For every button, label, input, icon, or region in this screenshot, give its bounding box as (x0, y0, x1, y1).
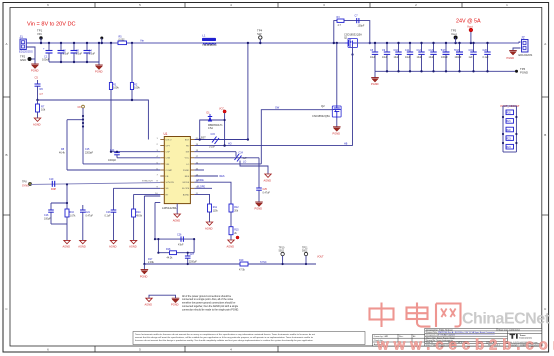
node: snubber rail junctions (333, 42, 335, 44)
svg-text:C8: C8 (78, 106, 82, 109)
capacitor C26 47pF (inline on top wire) (177, 234, 184, 247)
ground AGND (R16) (64, 240, 70, 243)
svg-text:VCC: VCC (219, 108, 224, 111)
svg-text:C7: C7 (355, 15, 359, 18)
wire: bus tie to rail (98, 43, 100, 62)
IC pin stubs right (190, 140, 194, 195)
capacitor C5 (35, 76, 44, 101)
ground PGND (C25) (255, 202, 263, 207)
resistor R3 snubber (inline) (337, 16, 345, 27)
svg-text:C15: C15 (211, 133, 216, 136)
svg-text:CSD18532Q5A: CSD18532Q5A (312, 114, 330, 118)
svg-text:C: C (5, 307, 8, 311)
svg-text:SYNC: SYNC (260, 261, 267, 264)
svg-text:BST: BST (201, 136, 206, 139)
wire: J1 pin2 to ground (26, 47, 35, 59)
node: R2 to wire (131, 99, 133, 101)
svg-text:5: 5 (139, 3, 141, 7)
svg-text:R20: R20 (507, 113, 512, 115)
zone tick marks left/right (3, 97, 549, 215)
svg-text:C18: C18 (455, 49, 460, 52)
svg-text:C12: C12 (417, 49, 422, 52)
svg-text:5002: 5002 (302, 250, 308, 253)
resistor R10 (inline sync) (49, 178, 56, 191)
svg-text:3.3uF: 3.3uF (76, 52, 83, 56)
svg-text:46.4k: 46.4k (59, 152, 66, 155)
wire: VCC row down to C25 (258, 158, 260, 188)
svg-text:Q2: Q2 (321, 104, 325, 108)
svg-text:COMP: COMP (166, 170, 173, 172)
svg-text:R3: R3 (337, 16, 341, 19)
svg-text:4: 4 (230, 3, 232, 7)
svg-text:SLOPE: SLOPE (197, 185, 205, 188)
svg-text:10uF: 10uF (394, 56, 400, 59)
svg-text:1: 1 (506, 3, 508, 7)
wire: SW node sense vertical (247, 43, 249, 140)
wire: box feed vertical (154, 203, 156, 240)
capacitor C3 3.3uF (71, 43, 83, 62)
svg-text:10uF: 10uF (382, 56, 388, 59)
wire: pin20 BST row (194, 139, 248, 141)
svg-text:AGND: AGND (227, 245, 235, 249)
svg-text:100k: 100k (113, 86, 119, 90)
svg-text:1uF: 1uF (469, 56, 474, 59)
wire: RT box top side (155, 238, 194, 240)
test point TP6 PGND (black, on bus) (512, 67, 528, 74)
capacitor C18 100uF (454, 43, 463, 71)
compensation network vertical C8 (78, 105, 94, 164)
svg-text:A: A (5, 42, 7, 46)
svg-text:ED120/2DS: ED120/2DS (19, 50, 33, 54)
svg-text:warrant that this design will: warrant that this design will meet the s… (135, 336, 314, 339)
svg-text:CSD18532Q5A: CSD18532Q5A (344, 33, 362, 37)
ground PGND input bus (95, 65, 103, 70)
capacitor C4 3.3uF (84, 43, 96, 62)
svg-text:Mod. Date: 10/31/2014: Mod. Date: 10/31/2014 (499, 328, 521, 331)
svg-text:ChinaECNet: ChinaECNet (462, 311, 551, 328)
node: rail to Q2 drain (336, 42, 338, 44)
ground AGND divider (34, 118, 40, 121)
svg-text:0.1uF: 0.1uF (483, 56, 490, 59)
svg-text:LO: LO (243, 161, 246, 164)
test point TP1 VIN (37, 29, 43, 44)
svg-text:CSN: CSN (166, 158, 171, 160)
wire: pin15 PGND stub (194, 169, 204, 171)
svg-text:10uF: 10uF (370, 56, 376, 59)
svg-text:C5: C5 (35, 76, 39, 80)
disclaimer box bottom center (133, 332, 365, 345)
svg-text:LM5122MH: LM5122MH (162, 206, 178, 210)
svg-text:VCC: VCC (185, 158, 190, 160)
resistor R16 1.07k (65, 202, 76, 224)
svg-text:100uF: 100uF (42, 58, 50, 62)
wire: Q2 source to ground (336, 118, 338, 127)
svg-text:PGND: PGND (183, 170, 190, 172)
wire: output ground bus (375, 70, 512, 72)
watermark char 网 (436, 304, 461, 328)
test point TP3 VOUT (red) (467, 25, 473, 44)
svg-text:44.2k: 44.2k (167, 256, 174, 259)
svg-text:1: 1 (157, 138, 159, 140)
svg-text:3.3uF: 3.3uF (89, 52, 96, 56)
resistor R15 (229, 227, 239, 240)
test point TP7 VCC (red) (219, 108, 226, 146)
wire: pin11 AGND row to R11 (194, 194, 209, 204)
svg-text:DNP: DNP (51, 188, 56, 191)
pin names (166, 139, 175, 196)
capacitor C1 100uF electrolytic (42, 43, 53, 62)
wire: RT box inner wire (158, 252, 194, 254)
ground PGND J2 (509, 51, 517, 56)
zone tick marks top (95, 3, 462, 8)
wire: pin17 VCC row (194, 157, 259, 159)
ground AGND IC pad (174, 214, 180, 217)
svg-text:100k: 100k (134, 86, 140, 90)
test point TP11 (302, 247, 308, 266)
svg-text:OPT: OPT (166, 146, 171, 148)
svg-text:R23: R23 (507, 138, 512, 140)
svg-text:VIN: VIN (166, 164, 170, 166)
svg-text:2200pF: 2200pF (85, 152, 94, 155)
svg-text:C27: C27 (190, 253, 195, 256)
svg-text:6: 6 (47, 3, 49, 7)
wire: pin19 HO row to Q1 gate (194, 145, 352, 147)
wire: left corner to ground (143, 264, 145, 270)
svg-text:C17: C17 (441, 49, 446, 52)
svg-text:C7: C7 (40, 92, 44, 96)
svg-text:PGND: PGND (520, 70, 528, 74)
capacitor C16 100pF (44, 203, 54, 224)
wire: Q1 gate drive vertical (HO) (352, 46, 354, 146)
wire: UVLO node to IC pin1 (38, 100, 149, 140)
resistor R12 (slope) (222, 182, 239, 227)
svg-text:3.3uF: 3.3uF (63, 52, 70, 56)
svg-text:SYNCIN: SYNCIN (166, 182, 175, 184)
svg-text:R22: R22 (507, 130, 512, 132)
wire: J2 pin2 to ground (513, 48, 521, 51)
svg-text:1000pF: 1000pF (108, 159, 117, 162)
svg-text:AGND: AGND (63, 245, 71, 249)
capacitor C22 0.1uF (SS) (105, 188, 117, 240)
capacitor C8 10uF (370, 43, 378, 71)
svg-text:0.002: 0.002 (119, 38, 126, 41)
svg-text:Project Title: PMP8740 Rev A -: Project Title: PMP8740 Rev A - 8V-20Vin,… (426, 331, 495, 334)
svg-text:AGND: AGND (129, 245, 137, 249)
svg-text:SLOPE: SLOPE (182, 188, 190, 190)
ground AGND (C24) (265, 174, 271, 177)
svg-text:C26: C26 (177, 234, 182, 237)
ground AGND (C23) (110, 240, 116, 243)
svg-text:B: B (544, 133, 546, 137)
svg-text:connection should be made to t: connection should be made to the single … (182, 308, 239, 311)
test point TP3 (input) (100, 37, 103, 40)
svg-text:Vin = 8V to 20V DC: Vin = 8V to 20V DC (27, 22, 76, 28)
wire: bottom sync rail (144, 263, 316, 265)
op-amp U1 LM5122 controller body (162, 132, 190, 210)
svg-text:Designed for: Public Release: Designed for: Public Release (426, 328, 454, 331)
svg-text:CSP: CSP (166, 152, 171, 154)
svg-text:HO: HO (186, 146, 190, 148)
svg-text:AGND: AGND (78, 245, 86, 249)
svg-text:2k: 2k (234, 232, 237, 235)
IC bottom pad stub (176, 204, 178, 214)
svg-text:1uF: 1uF (243, 157, 248, 160)
svg-text:10k: 10k (41, 108, 46, 112)
ground PGND (single point tie) (172, 298, 180, 303)
resistor R5 current sense shunt (inline on rail) (118, 36, 127, 45)
wire: pin13 MODE row (194, 181, 222, 183)
svg-text:GND: GND (20, 58, 26, 62)
svg-text:AGND: AGND (205, 227, 213, 231)
svg-text:C13: C13 (429, 49, 434, 52)
svg-text:0.1uF: 0.1uF (105, 215, 112, 218)
pin numbers (155, 138, 199, 195)
svg-text:7: 7 (157, 174, 159, 176)
svg-text:10uF: 10uF (429, 56, 435, 59)
svg-text:BST: BST (185, 139, 190, 141)
capacitor C14 1000pF (between CSP/CSN) (108, 149, 120, 162)
wire: pin3 CSP to input divider (111, 151, 160, 153)
svg-text:PGND: PGND (507, 56, 515, 60)
svg-text:100uF: 100uF (441, 56, 448, 59)
svg-text:10uF: 10uF (405, 56, 411, 59)
svg-text:115k: 115k (213, 210, 219, 213)
svg-text:C19: C19 (469, 49, 474, 52)
svg-text:www.cecb2b.com: www.cecb2b.com (376, 337, 554, 354)
capacitor C17 100uF (441, 43, 450, 71)
svg-text:LO: LO (186, 164, 189, 166)
capacitor C7 snubber (inline) (355, 15, 365, 28)
svg-text:0.5A: 0.5A (208, 127, 213, 130)
resistor R7 (36, 100, 46, 118)
test point TP10 (279, 247, 285, 266)
svg-text:J2: J2 (521, 36, 525, 40)
capacitor C9 10uF (382, 43, 390, 71)
svg-text:SYNC: SYNC (22, 185, 29, 188)
TI logo (509, 334, 532, 340)
compensation network vertical C6 (59, 120, 83, 170)
wire: C24 to AGND corner (240, 161, 268, 175)
svg-text:B: B (5, 153, 7, 157)
svg-text:UVLO: UVLO (166, 139, 172, 141)
svg-text:PGND: PGND (255, 207, 263, 211)
zone tick marks bottom (95, 346, 278, 352)
svg-text:L1: L1 (202, 34, 206, 38)
svg-text:SW: SW (257, 32, 262, 36)
svg-text:Texas Instruments and/or its l: Texas Instruments and/or its licensors d… (135, 333, 315, 336)
wire: pin16 LO row (194, 163, 261, 165)
ground PGND output bus (374, 71, 376, 77)
diode D1 MBR0540LT1 (207, 112, 224, 131)
resistor R19 47.5k inline (239, 259, 248, 272)
resistor R14 49.9k (RT) (132, 194, 143, 240)
svg-text:Vin: Vin (140, 39, 144, 43)
wire: pin6 COMP from comp network (67, 169, 160, 171)
svg-text:7443558100: 7443558100 (202, 43, 217, 47)
ground AGND (R15) (228, 240, 234, 243)
svg-text:R6: R6 (40, 87, 44, 91)
resistor R1 (vertical from rail) (109, 43, 119, 152)
wire: LO gate drive to Q2 (261, 110, 333, 164)
capacitor C12 10uF (417, 43, 425, 71)
svg-text:2: 2 (157, 144, 159, 146)
svg-text:Vout: Vout (467, 25, 473, 29)
snubber loop across Q1 (334, 21, 370, 43)
connector J1 (19, 35, 33, 54)
svg-text:R21: R21 (507, 121, 512, 123)
wire: pin12 SLOPE row (194, 187, 212, 189)
capacitor C27 2200pF (185, 252, 197, 264)
svg-text:20k: 20k (234, 210, 239, 213)
capacitor C24 1uF (VCC) (235, 152, 248, 167)
capacitor C13 10uF (429, 43, 437, 71)
wire: pin4 CSN (117, 157, 160, 159)
svg-text:MODE: MODE (197, 179, 205, 182)
node: box corners (157, 238, 159, 240)
svg-text:C24: C24 (239, 152, 244, 155)
svg-text:Vout: Vout (451, 32, 457, 36)
wire: C16/R16 join to ground (51, 223, 67, 225)
svg-text:47.5k: 47.5k (239, 269, 246, 272)
wire: pin5 VIN from comp network (83, 163, 160, 165)
svg-text:C20: C20 (483, 49, 488, 52)
svg-text:R19: R19 (239, 259, 244, 262)
svg-text:47pF: 47pF (178, 243, 184, 246)
svg-text:RES: RES (185, 176, 190, 178)
svg-text:100uF: 100uF (455, 56, 462, 59)
capacitor C11 10uF (405, 43, 413, 71)
ground AGND (R11) (206, 222, 212, 225)
svg-text:PGND: PGND (31, 69, 39, 73)
svg-text:AGND: AGND (109, 245, 117, 249)
wire: Q1 to output rail (356, 42, 519, 44)
wire: main input rail (26, 42, 203, 44)
test point TP9 SYNC (22, 180, 32, 187)
svg-text:10uF: 10uF (417, 56, 423, 59)
junction dots input rail (40, 42, 133, 63)
svg-text:R18: R18 (166, 248, 171, 251)
svg-text:MODE: MODE (183, 182, 190, 184)
wire: pin10 RT (134, 193, 161, 195)
svg-text:PGND: PGND (140, 275, 148, 279)
test point TP2 GND (28, 58, 31, 61)
svg-text:49.9k: 49.9k (136, 215, 143, 218)
svg-text:2: 2 (415, 3, 417, 7)
test point TP5 VOUT (black) (451, 29, 457, 44)
ground PGND below J1 (34, 59, 36, 64)
capacitor C15 0.1uF (bootstrap, slanted) (209, 133, 219, 149)
svg-text:PGND: PGND (371, 82, 379, 86)
svg-text:J1: J1 (20, 35, 24, 39)
watermark char 中 (370, 303, 394, 328)
ground AGND (R14) (130, 240, 136, 243)
svg-text:6: 6 (47, 347, 49, 351)
svg-text:0.47uF: 0.47uF (86, 215, 94, 218)
resistor R11 115k (208, 204, 219, 222)
svg-text:100pF: 100pF (44, 218, 51, 221)
svg-text:C10: C10 (394, 49, 399, 52)
capacitor C25 0.47uF (256, 188, 270, 202)
svg-text:C19: C19 (49, 178, 54, 181)
IC pin stubs left (160, 140, 164, 195)
svg-text:VIN: VIN (37, 32, 42, 36)
svg-text:A: A (544, 42, 546, 46)
wire: pin9 SS to cap (114, 187, 161, 189)
svg-text:PGND: PGND (171, 303, 179, 307)
wire: pin18 SW row to cap C24 (194, 151, 236, 153)
ground PGND (sync rail) (141, 270, 149, 275)
svg-text:R24: R24 (507, 147, 512, 149)
svg-text:2200pF: 2200pF (189, 261, 198, 264)
transistor Q1 CSD18532Q5A (sync FET, horizontal) (344, 33, 362, 48)
svg-text:ED120/2DS: ED120/2DS (519, 53, 533, 57)
svg-text:U1: U1 (164, 132, 168, 136)
ground PGND Q2 (333, 127, 341, 132)
svg-text:AGND: AGND (183, 193, 190, 196)
svg-text:AGND: AGND (33, 123, 41, 127)
svg-text:4: 4 (230, 347, 232, 351)
svg-text:licensors do not warrant that: licensors do not warrant that the design… (135, 339, 314, 342)
capacitor C19 1uF (469, 43, 477, 71)
note text block (182, 295, 239, 312)
svg-text:C14: C14 (110, 149, 115, 152)
svg-text:SW: SW (275, 106, 280, 110)
ground AGND (single point tie) (149, 295, 176, 298)
wire: branch down from sync (51, 184, 67, 203)
resistor R2 (vertical from rail) (130, 43, 140, 100)
capacitor C20 0.1uF (483, 43, 491, 71)
capacitor C10 10uF (394, 43, 402, 71)
resistor ladder R20-R24 (502, 106, 518, 152)
node: UVLO junction (36, 99, 38, 101)
svg-text:AGND: AGND (173, 219, 181, 223)
ground AGND (C21) (80, 240, 86, 243)
svg-text:SYNCOUT: SYNCOUT (142, 181, 153, 183)
svg-text:5002: 5002 (279, 250, 285, 253)
capacitor C2 3.3uF (58, 43, 70, 62)
wire: pin8 SYNCIN long wire (31, 183, 161, 185)
svg-text:TP8: TP8 (22, 180, 27, 183)
wire: pin14 RES row (194, 175, 218, 177)
wire: input cap ground bus (49, 62, 99, 65)
wire: BST to diode D1 (200, 120, 225, 140)
resistor R18 44.2k (inline) (166, 248, 177, 259)
test point TP4 SW (257, 29, 263, 45)
junction dots output rail and bus (374, 42, 489, 73)
svg-text:VOUT: VOUT (317, 256, 324, 259)
inductor L1 (202, 34, 217, 47)
svg-text:1.07k: 1.07k (70, 215, 77, 218)
wire: vertical from IC area to sync rail (143, 196, 145, 264)
svg-text:3: 3 (323, 3, 325, 7)
svg-text:AGND: AGND (145, 303, 153, 307)
svg-text:HO: HO (228, 142, 232, 145)
svg-text:PGND: PGND (95, 70, 103, 74)
svg-text:HB: HB (344, 143, 348, 146)
capacitor C21 0.47uF branch (80, 164, 93, 241)
svg-text:C11: C11 (405, 49, 410, 52)
svg-text:0.47uF: 0.47uF (263, 191, 271, 194)
svg-text:5: 5 (139, 347, 141, 351)
watermark char 电 (407, 303, 431, 327)
test point TP12 (red, slope) (236, 236, 239, 239)
svg-text:AGND: AGND (264, 179, 272, 183)
svg-text:PGND: PGND (333, 132, 341, 136)
svg-text:4.7: 4.7 (338, 24, 342, 27)
connector J2 (519, 36, 533, 58)
svg-text:+: + (43, 48, 45, 51)
wire: SW node down to Q2 (336, 43, 338, 105)
